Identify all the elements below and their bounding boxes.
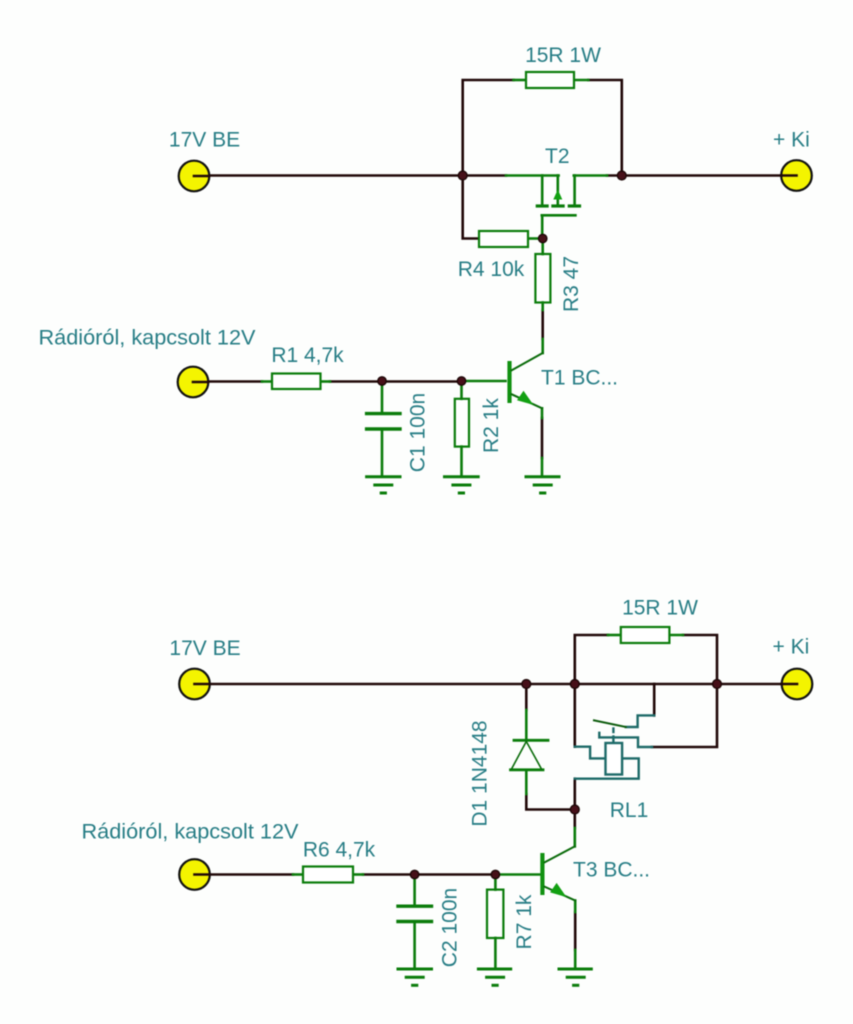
svg-text:T3 BC...: T3 BC... [573,859,650,882]
svg-text:T2: T2 [545,145,570,168]
svg-text:R3 47: R3 47 [560,256,583,312]
svg-text:D1 1N4148: D1 1N4148 [469,720,492,826]
svg-text:Rádióról, kapcsolt 12V: Rádióról, kapcsolt 12V [82,819,300,844]
svg-text:C1 100n: C1 100n [407,393,430,472]
svg-text:15R 1W: 15R 1W [622,597,698,620]
svg-text:RL1: RL1 [610,799,649,822]
svg-text:R2 1k: R2 1k [480,398,503,453]
svg-text:R4 10k: R4 10k [458,258,525,281]
svg-text:+ Ki: + Ki [773,636,810,659]
svg-text:17V BE: 17V BE [169,637,240,660]
svg-text:Rádióról, kapcsolt 12V: Rádióról, kapcsolt 12V [39,325,257,350]
svg-text:R7 1k: R7 1k [513,894,536,949]
svg-text:C2 100n: C2 100n [439,888,462,967]
svg-text:R1 4,7k: R1 4,7k [271,344,344,367]
svg-text:T1 BC...: T1 BC... [541,367,618,390]
svg-text:17V BE: 17V BE [169,129,240,152]
svg-text:+ Ki: + Ki [773,129,810,152]
svg-text:R6 4,7k: R6 4,7k [303,839,376,862]
svg-text:15R 1W: 15R 1W [525,44,601,67]
